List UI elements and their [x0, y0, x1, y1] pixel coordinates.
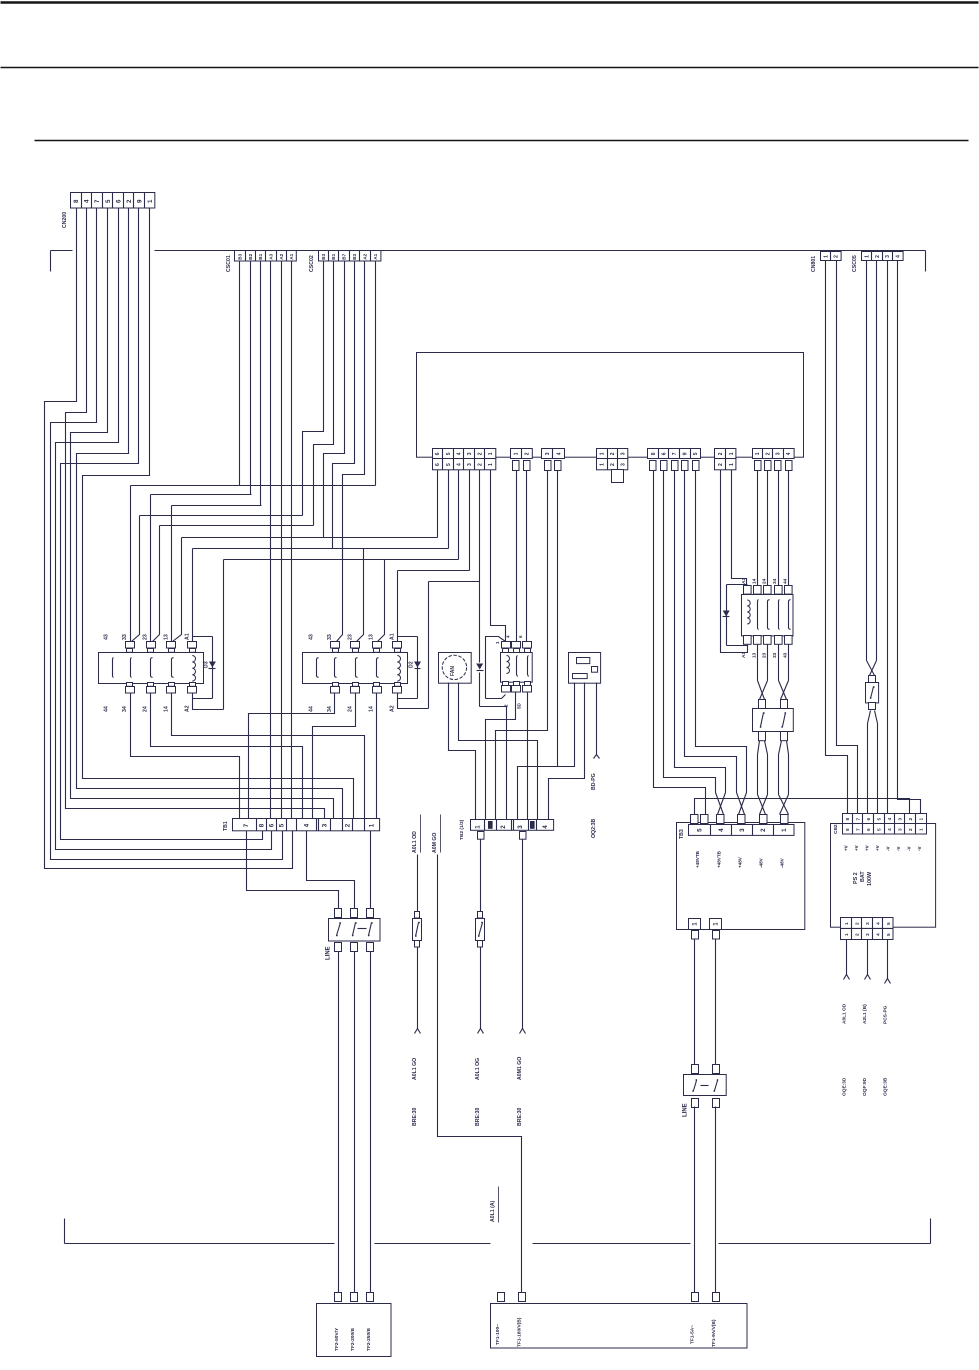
- svg-text:2: 2: [854, 922, 860, 925]
- wire CN6-2 to relay K5 coil A3: [732, 470, 747, 586]
- svg-text:3: 3: [897, 828, 903, 831]
- wire relay K2 coil A2 jog: [398, 694, 429, 709]
- svg-text:B3: B3: [352, 253, 357, 259]
- field wiring box TF1: [498, 1293, 505, 1302]
- svg-text:1: 1: [729, 463, 735, 466]
- enclosure boundary top-left corner stub: [50, 251, 52, 272]
- svg-text:1: 1: [844, 933, 850, 936]
- svg-text:3: 3: [620, 452, 626, 455]
- wire relay K3 coil A2 jog: [193, 694, 224, 710]
- svg-text:5: 5: [105, 199, 112, 203]
- svg-text:4: 4: [304, 823, 311, 827]
- svg-text:A1: A1: [373, 253, 378, 259]
- svg-text:6: 6: [866, 828, 872, 831]
- wire fan relay right pin to TB2: [527, 693, 529, 820]
- svg-text:2: 2: [834, 255, 840, 258]
- svg-text:-48V: -48V: [759, 857, 764, 868]
- svg-text:6: 6: [866, 817, 872, 820]
- wire PS2 pin 3 to A2L1: [867, 940, 869, 975]
- relay K3 bottom pins: [127, 683, 133, 687]
- wire relay K3 pin 14 to TB1: [172, 694, 365, 819]
- enclosure boundary bottom-left corner stub: [64, 1219, 66, 1244]
- top border rule 3: [35, 140, 969, 142]
- relay K2 top pins: [331, 642, 340, 649]
- svg-text:3: 3: [885, 255, 891, 258]
- svg-text:1: 1: [918, 817, 924, 820]
- wire TB1 pin 4 to line filter LF1 pin 2: [307, 831, 355, 909]
- wire TB3 terminal 5a to CB2 pin 2: [695, 799, 910, 815]
- svg-text:5: 5: [446, 463, 452, 466]
- fan motor FAN: [439, 653, 472, 684]
- svg-text:2: 2: [875, 255, 881, 258]
- wire CSC02 pin 1 jog: [303, 262, 324, 516]
- svg-text:6: 6: [661, 452, 667, 455]
- wire TB3 to line filter LF2 left: [694, 939, 696, 1065]
- svg-text:LINE: LINE: [682, 1103, 688, 1117]
- PCB connector CN6 (2-pin) cells: [715, 449, 736, 459]
- svg-text:2: 2: [908, 817, 914, 820]
- svg-text:1: 1: [692, 922, 699, 926]
- wire CN1-3 to relay K4 coil A1: [469, 470, 471, 571]
- svg-text:1: 1: [369, 823, 376, 827]
- relay K2 bottom pins: [333, 683, 339, 687]
- terminal strip CB2: [843, 814, 927, 825]
- wire net 13B horizontal run: [182, 537, 438, 539]
- svg-text:3: 3: [517, 825, 524, 829]
- fuse box F4: [759, 700, 766, 709]
- svg-text:34: 34: [122, 706, 128, 712]
- connector CN200 pin row: [71, 193, 155, 209]
- TB2 bottom pin boxes: [478, 832, 485, 840]
- svg-text:TF1-9A/V(B): TF1-9A/V(B): [711, 1319, 717, 1347]
- svg-text:8: 8: [845, 817, 851, 820]
- svg-text:1: 1: [823, 255, 829, 258]
- top border rule 1: [1, 1, 979, 4]
- svg-text:4: 4: [456, 463, 462, 466]
- svg-text:+48VTB: +48VTB: [695, 850, 700, 868]
- svg-text:3: 3: [865, 922, 871, 925]
- wire CN200 pin 1 to TB1: [45, 209, 293, 869]
- svg-text:1: 1: [781, 828, 788, 832]
- relay K3 contacts and coil: [112, 659, 114, 677]
- relay K2 contacts and coil: [316, 659, 318, 677]
- svg-text:4: 4: [875, 922, 881, 925]
- svg-text:7: 7: [94, 199, 101, 203]
- relay K5 bottom pins: [744, 636, 752, 645]
- enclosure boundary top edge: [51, 250, 73, 252]
- svg-text:2: 2: [610, 452, 616, 455]
- svg-text:7: 7: [855, 828, 861, 831]
- svg-text:1: 1: [755, 452, 761, 455]
- wire CSC01 pin A2 to TB1: [281, 262, 283, 819]
- svg-text:6: 6: [435, 463, 441, 466]
- fan relay bypass wire left side: [486, 637, 506, 699]
- arrow A0M1 GO: [520, 1029, 526, 1034]
- svg-text:33: 33: [327, 634, 333, 640]
- svg-text:100W: 100W: [867, 871, 873, 886]
- wire CN5-1 to TB3 terminal 5b: [654, 471, 706, 815]
- svg-text:14: 14: [751, 578, 757, 584]
- svg-text:2: 2: [765, 452, 771, 455]
- svg-text:4: 4: [786, 452, 792, 455]
- svg-text:8: 8: [259, 823, 266, 827]
- wire net A1A horizontal run: [193, 548, 449, 550]
- svg-text:OQF:9D: OQF:9D: [862, 1077, 868, 1096]
- svg-text:A2L1 (B): A2L1 (B): [862, 1004, 868, 1024]
- diode D3 across relay K3 coil: [193, 636, 213, 638]
- connector CSC05 pin row: [862, 252, 904, 261]
- wire pressure switch left to TB2 pin 3: [518, 683, 575, 820]
- svg-text:4: 4: [456, 452, 462, 455]
- svg-text:B7: B7: [342, 253, 347, 259]
- svg-text:5: 5: [697, 828, 704, 832]
- svg-text:LINE: LINE: [325, 946, 331, 960]
- diode D1: [476, 664, 483, 670]
- wire CN3-4 drop: [557, 471, 559, 767]
- svg-text:+V: +V: [854, 845, 859, 851]
- svg-text:34: 34: [327, 706, 333, 712]
- wire pressure switch middle to TB2: [549, 683, 585, 820]
- wire relay K2 pin 24 to TB1: [313, 694, 356, 819]
- svg-text:4: 4: [875, 933, 881, 936]
- svg-text:TB2 (1/3): TB2 (1/3): [459, 819, 465, 840]
- svg-text:4: 4: [84, 199, 91, 203]
- svg-text:+48VTB: +48VTB: [716, 850, 721, 868]
- svg-text:43: 43: [782, 652, 788, 658]
- riser to relay K2 contact 33: [337, 538, 343, 642]
- svg-text:CB2: CB2: [833, 824, 839, 834]
- svg-text:3: 3: [897, 817, 903, 820]
- svg-text:13: 13: [163, 634, 169, 640]
- svg-text:BAT: BAT: [860, 871, 866, 882]
- svg-text:5: 5: [876, 817, 882, 820]
- connector CSC01 pin row: [235, 251, 297, 262]
- wire CSC02 pin 6 drop: [375, 262, 377, 486]
- svg-text:3: 3: [739, 828, 746, 832]
- wire net A1B horizontal run: [398, 570, 470, 572]
- wire TB3 to line filter LF2 right: [715, 939, 717, 1065]
- svg-text:5: 5: [886, 933, 892, 936]
- svg-text:A2: A2: [184, 705, 190, 712]
- relay K2 outline: [303, 653, 408, 684]
- wire CN801 pin 2 to CB2 pin 7: [837, 261, 858, 814]
- svg-text:TF1-180/V(B): TF1-180/V(B): [516, 1317, 522, 1347]
- svg-text:43: 43: [308, 634, 314, 640]
- svg-text:1: 1: [147, 199, 154, 203]
- wire TB1 pin 1 to line filter LF1 pin 3: [370, 831, 372, 909]
- svg-text:-V: -V: [896, 847, 901, 852]
- wire CN200 pin 6 to TB1: [77, 209, 343, 819]
- twisted pair fuse F4 to TB3 pin 2: [758, 741, 760, 755]
- svg-text:1: 1: [864, 255, 870, 258]
- svg-text:PCS-PG: PCS-PG: [882, 1005, 888, 1024]
- arrow A0L1 OG: [478, 1029, 484, 1034]
- wire CSC02 pin 2 jog: [314, 262, 334, 526]
- svg-text:1: 1: [488, 463, 494, 466]
- line filter LF1: [335, 909, 342, 918]
- svg-text:34: 34: [772, 578, 778, 584]
- svg-text:2: 2: [718, 452, 724, 455]
- svg-text:1: 1: [713, 922, 720, 926]
- arrow BD-PG: [594, 755, 600, 759]
- wire LF1 pin 3 to TF2: [370, 952, 372, 1293]
- wire CN200 pin 2 to TB1: [66, 209, 325, 819]
- svg-text:A0L1 OG: A0L1 OG: [475, 1058, 481, 1080]
- svg-text:1: 1: [729, 452, 735, 455]
- wire CN5-5 to TB3 terminal 3: [696, 471, 747, 815]
- svg-text:2: 2: [854, 933, 860, 936]
- svg-text:PS 2: PS 2: [853, 872, 859, 884]
- wire CN5-2 to TB3 terminal 4: [664, 471, 724, 815]
- svg-text:2: 2: [504, 704, 509, 707]
- svg-text:24: 24: [347, 706, 353, 712]
- svg-text:7: 7: [855, 817, 861, 820]
- PCB connector CN4 (3-pin) cells with shunt box: [597, 449, 628, 459]
- svg-text:9: 9: [136, 199, 143, 203]
- wire CSC05 pin 3 to CB2 pin 4: [887, 261, 889, 814]
- svg-text:33: 33: [772, 652, 778, 658]
- terminal block TB1 strip: [233, 819, 380, 831]
- svg-text:1: 1: [488, 452, 494, 455]
- pressure switch 63H outline: [569, 653, 601, 684]
- terminal block TB3 strip: [689, 825, 795, 836]
- svg-text:-V: -V: [917, 847, 922, 852]
- svg-text:5: 5: [279, 823, 286, 827]
- svg-text:TF2-200/B: TF2-200/B: [350, 1328, 356, 1351]
- wire CSC01 pin B1 to relay K3 contact 13: [260, 262, 262, 506]
- svg-text:1: 1: [495, 641, 500, 644]
- svg-text:3: 3: [620, 463, 626, 466]
- wire CN200 pin 8 to TB1: [83, 209, 354, 819]
- svg-text:OQE:3D: OQE:3D: [841, 1077, 847, 1096]
- svg-text:43: 43: [103, 634, 109, 640]
- svg-text:5: 5: [886, 922, 892, 925]
- svg-text:1: 1: [600, 452, 606, 455]
- wire CN5-3 to TB3 terminal 4: [675, 471, 726, 815]
- wire net 33A horizontal run: [131, 485, 376, 487]
- svg-text:6: 6: [518, 635, 523, 638]
- svg-text:4: 4: [896, 255, 902, 258]
- svg-text:+48V: +48V: [737, 856, 742, 868]
- svg-text:2: 2: [500, 825, 507, 829]
- wire net 33B horizontal run: [140, 515, 303, 517]
- wire relay K2 pin 34 to TB1 pin 7: [249, 694, 335, 819]
- wire fan motor bottom right to TB2 pin 4: [459, 683, 538, 820]
- wire relay K2 pin 14 to TB1: [376, 694, 378, 819]
- svg-text:BRE:30: BRE:30: [517, 1107, 523, 1126]
- wire CSC05 pins 1-2 to fuse F1 twisted pair: [866, 261, 868, 661]
- wire CN200 pin 3 to TB1: [51, 209, 283, 860]
- wire CN7 pins to relay K5 contacts: [757, 471, 759, 586]
- fan relay K1 pins: [502, 642, 511, 649]
- terminal block TB3 pin boxes: [691, 815, 699, 824]
- svg-text:BRE:30: BRE:30: [412, 1107, 418, 1126]
- wire CSC01 pin B3 to relay K3 contact 33: [239, 262, 241, 486]
- relay K5 outline: [742, 595, 794, 636]
- terminal block TB3 box outline: [677, 823, 805, 930]
- wire CN1-5 to relay K4 contact 23: [448, 470, 450, 549]
- svg-text:2: 2: [610, 463, 616, 466]
- svg-text:CSC02: CSC02: [309, 255, 315, 272]
- svg-text:D3: D3: [203, 661, 209, 668]
- svg-text:7: 7: [243, 823, 250, 827]
- relay K3 top pins: [126, 642, 135, 649]
- svg-text:BD-PG: BD-PG: [591, 773, 597, 790]
- svg-text:D2: D2: [408, 661, 414, 668]
- diode D4 across relay K5 coil: [727, 584, 748, 586]
- svg-text:8: 8: [73, 199, 80, 203]
- svg-text:44: 44: [782, 578, 788, 584]
- svg-text:1: 1: [475, 825, 482, 829]
- svg-text:2: 2: [477, 463, 483, 466]
- wire CSC01 pin A3 to TB1: [270, 262, 272, 819]
- relay K5 coil and contacts: [747, 600, 750, 624]
- svg-text:A2: A2: [362, 253, 367, 259]
- wire relay K3 pin 24 to TB1: [151, 694, 303, 819]
- svg-text:9: 9: [683, 452, 689, 455]
- wire CN6-1 to relay K5 coil A1: [721, 470, 748, 653]
- PCB connector CN2 (2-pin) cells: [511, 449, 533, 459]
- svg-text:TB3: TB3: [679, 829, 685, 839]
- svg-text:OQE:3B: OQE:3B: [882, 1077, 888, 1096]
- wire fan motor bottom left to TB2 pin 1: [449, 683, 476, 820]
- fuse F2 wire A0L1: [417, 855, 419, 913]
- enclosure boundary bottom edge: [65, 1243, 335, 1245]
- wire CN200 pin 5 to TB1: [56, 209, 272, 850]
- svg-text:A1: A1: [289, 253, 294, 259]
- TB3 bottom terminal 1b: [710, 919, 722, 930]
- svg-text:-V: -V: [885, 847, 890, 852]
- fan relay K1 coil and contacts: [507, 656, 510, 674]
- twisted pair relay K5 13-23 to fuse F4: [757, 645, 759, 681]
- svg-text:4: 4: [542, 825, 549, 829]
- wire CN1-4 to relay K4 contact 13: [458, 470, 460, 560]
- wire CN5-4 to TB3 terminal 3: [685, 471, 745, 815]
- PCB connector CN3 (2-pin) cells: [542, 449, 565, 459]
- svg-text:TF1-100~: TF1-100~: [495, 1324, 501, 1345]
- svg-text:1: 1: [600, 463, 606, 466]
- svg-text:TF1-5A~: TF1-5A~: [689, 1325, 695, 1344]
- wire PS2 pin 1 to A0L1 OD: [846, 940, 848, 975]
- svg-text:A0L1 OD: A0L1 OD: [412, 831, 418, 853]
- svg-text:CN801: CN801: [811, 256, 817, 272]
- wire CSC02 pin 3 jog: [324, 262, 345, 538]
- wire CN3-3 to TB2: [496, 471, 548, 820]
- svg-text:TB1: TB1: [223, 821, 229, 831]
- svg-text:23: 23: [762, 652, 768, 658]
- svg-text:A0L1 OD: A0L1 OD: [841, 1003, 847, 1024]
- svg-text:6: 6: [435, 452, 441, 455]
- svg-text:3: 3: [467, 452, 473, 455]
- wire A0L1(A) long jog to TF1: [438, 855, 522, 1293]
- twisted pair relay K5 33-43 to fuse F4: [778, 645, 780, 681]
- svg-text:1: 1: [844, 922, 850, 925]
- wire net A2B horizontal run: [429, 581, 480, 583]
- svg-text:5: 5: [446, 452, 452, 455]
- svg-text:4: 4: [506, 635, 511, 638]
- svg-text:6: 6: [269, 823, 276, 827]
- wire net A2A horizontal run: [224, 559, 459, 561]
- wire relay K3 pin 34 to TB1 pin 7: [131, 694, 240, 819]
- wire pressure switch right to BD-PG: [596, 683, 598, 755]
- svg-text:3: 3: [545, 452, 551, 455]
- main control PCB A1 outline: [417, 353, 804, 458]
- svg-text:CSC05: CSC05: [852, 255, 858, 272]
- wire fan relay middle pin to TB2: [486, 693, 516, 820]
- power supply PS2 bottom terminals: [841, 918, 894, 929]
- svg-text:3: 3: [865, 933, 871, 936]
- svg-text:1: 1: [514, 452, 520, 455]
- svg-text:B3: B3: [321, 253, 326, 259]
- svg-text:24: 24: [142, 706, 148, 712]
- wire CSC01 pin A1 to TB1: [291, 262, 293, 819]
- wire CN1-2 through diode D1 to fan relay: [479, 470, 481, 663]
- relay K5 top pins: [744, 586, 752, 595]
- svg-text:A3: A3: [268, 253, 273, 259]
- svg-text:8: 8: [845, 828, 851, 831]
- svg-text:BRE:30: BRE:30: [475, 1107, 481, 1126]
- svg-text:A0M GO: A0M GO: [432, 833, 438, 853]
- top border rule 2: [1, 67, 979, 69]
- wire PS2 pin 5 to PCS-PG: [887, 940, 889, 979]
- svg-text:+V: +V: [864, 845, 869, 851]
- svg-text:A0L1 (A): A0L1 (A): [490, 1200, 496, 1222]
- svg-text:3: 3: [467, 463, 473, 466]
- enclosure boundary top-right corner stub: [925, 251, 927, 272]
- svg-text:B1: B1: [331, 253, 336, 259]
- wire CSC05 pin 4 to CB2 pin 1: [898, 261, 921, 814]
- wire LF1 pin 2 to TF2: [354, 952, 356, 1293]
- wire CN801 pin 1 to CB2 pin 8: [826, 261, 848, 814]
- diode D2 across relay K2 coil: [398, 636, 418, 638]
- TB3 bottom pin boxes: [692, 931, 699, 940]
- connector CSC02 pin row: [319, 251, 381, 262]
- svg-text:OQ2:3B: OQ2:3B: [591, 818, 597, 838]
- svg-text:23: 23: [347, 634, 353, 640]
- svg-text:4: 4: [718, 828, 725, 832]
- svg-text:14: 14: [163, 706, 169, 712]
- wire CSC02 pin 5 jog: [343, 262, 365, 560]
- power supply PS2 box: [831, 824, 936, 928]
- svg-text:44: 44: [308, 706, 314, 712]
- svg-text:TF2-50V/Y: TF2-50V/Y: [334, 1327, 340, 1351]
- svg-text:A0M1 GO: A0M1 GO: [517, 1057, 523, 1080]
- wire CN1-6 to relay K4 contact 33: [437, 470, 439, 538]
- svg-text:2: 2: [760, 828, 767, 832]
- svg-text:2: 2: [345, 823, 352, 827]
- svg-text:4: 4: [887, 828, 893, 831]
- svg-text:3: 3: [776, 452, 782, 455]
- wire CN200 pin 7 to TB1: [61, 209, 263, 840]
- arrow A0L1 GO: [415, 1029, 421, 1034]
- wire CN2-2 to fan relay: [526, 471, 528, 642]
- connector CN801 pin row: [821, 252, 842, 261]
- svg-text:8: 8: [651, 452, 657, 455]
- wire CSC01 pin B2 to relay K3 contact 23: [250, 262, 252, 495]
- wire LF1 pin 1 to TF2: [338, 952, 340, 1293]
- svg-text:33: 33: [122, 634, 128, 640]
- svg-text:44: 44: [103, 706, 109, 712]
- TB3 bottom terminal 1a: [689, 919, 701, 930]
- fuse F1: [869, 676, 876, 683]
- wire CN200 pin 4 to TB1: [71, 209, 334, 819]
- svg-text:6: 6: [115, 199, 122, 203]
- wire TB1 pin 7 to line filter LF1 pin 1: [247, 831, 339, 909]
- svg-text:FAN: FAN: [450, 666, 456, 676]
- svg-text:CSC01: CSC01: [226, 255, 232, 272]
- svg-text:24: 24: [762, 578, 768, 584]
- svg-text:CN200: CN200: [62, 212, 68, 228]
